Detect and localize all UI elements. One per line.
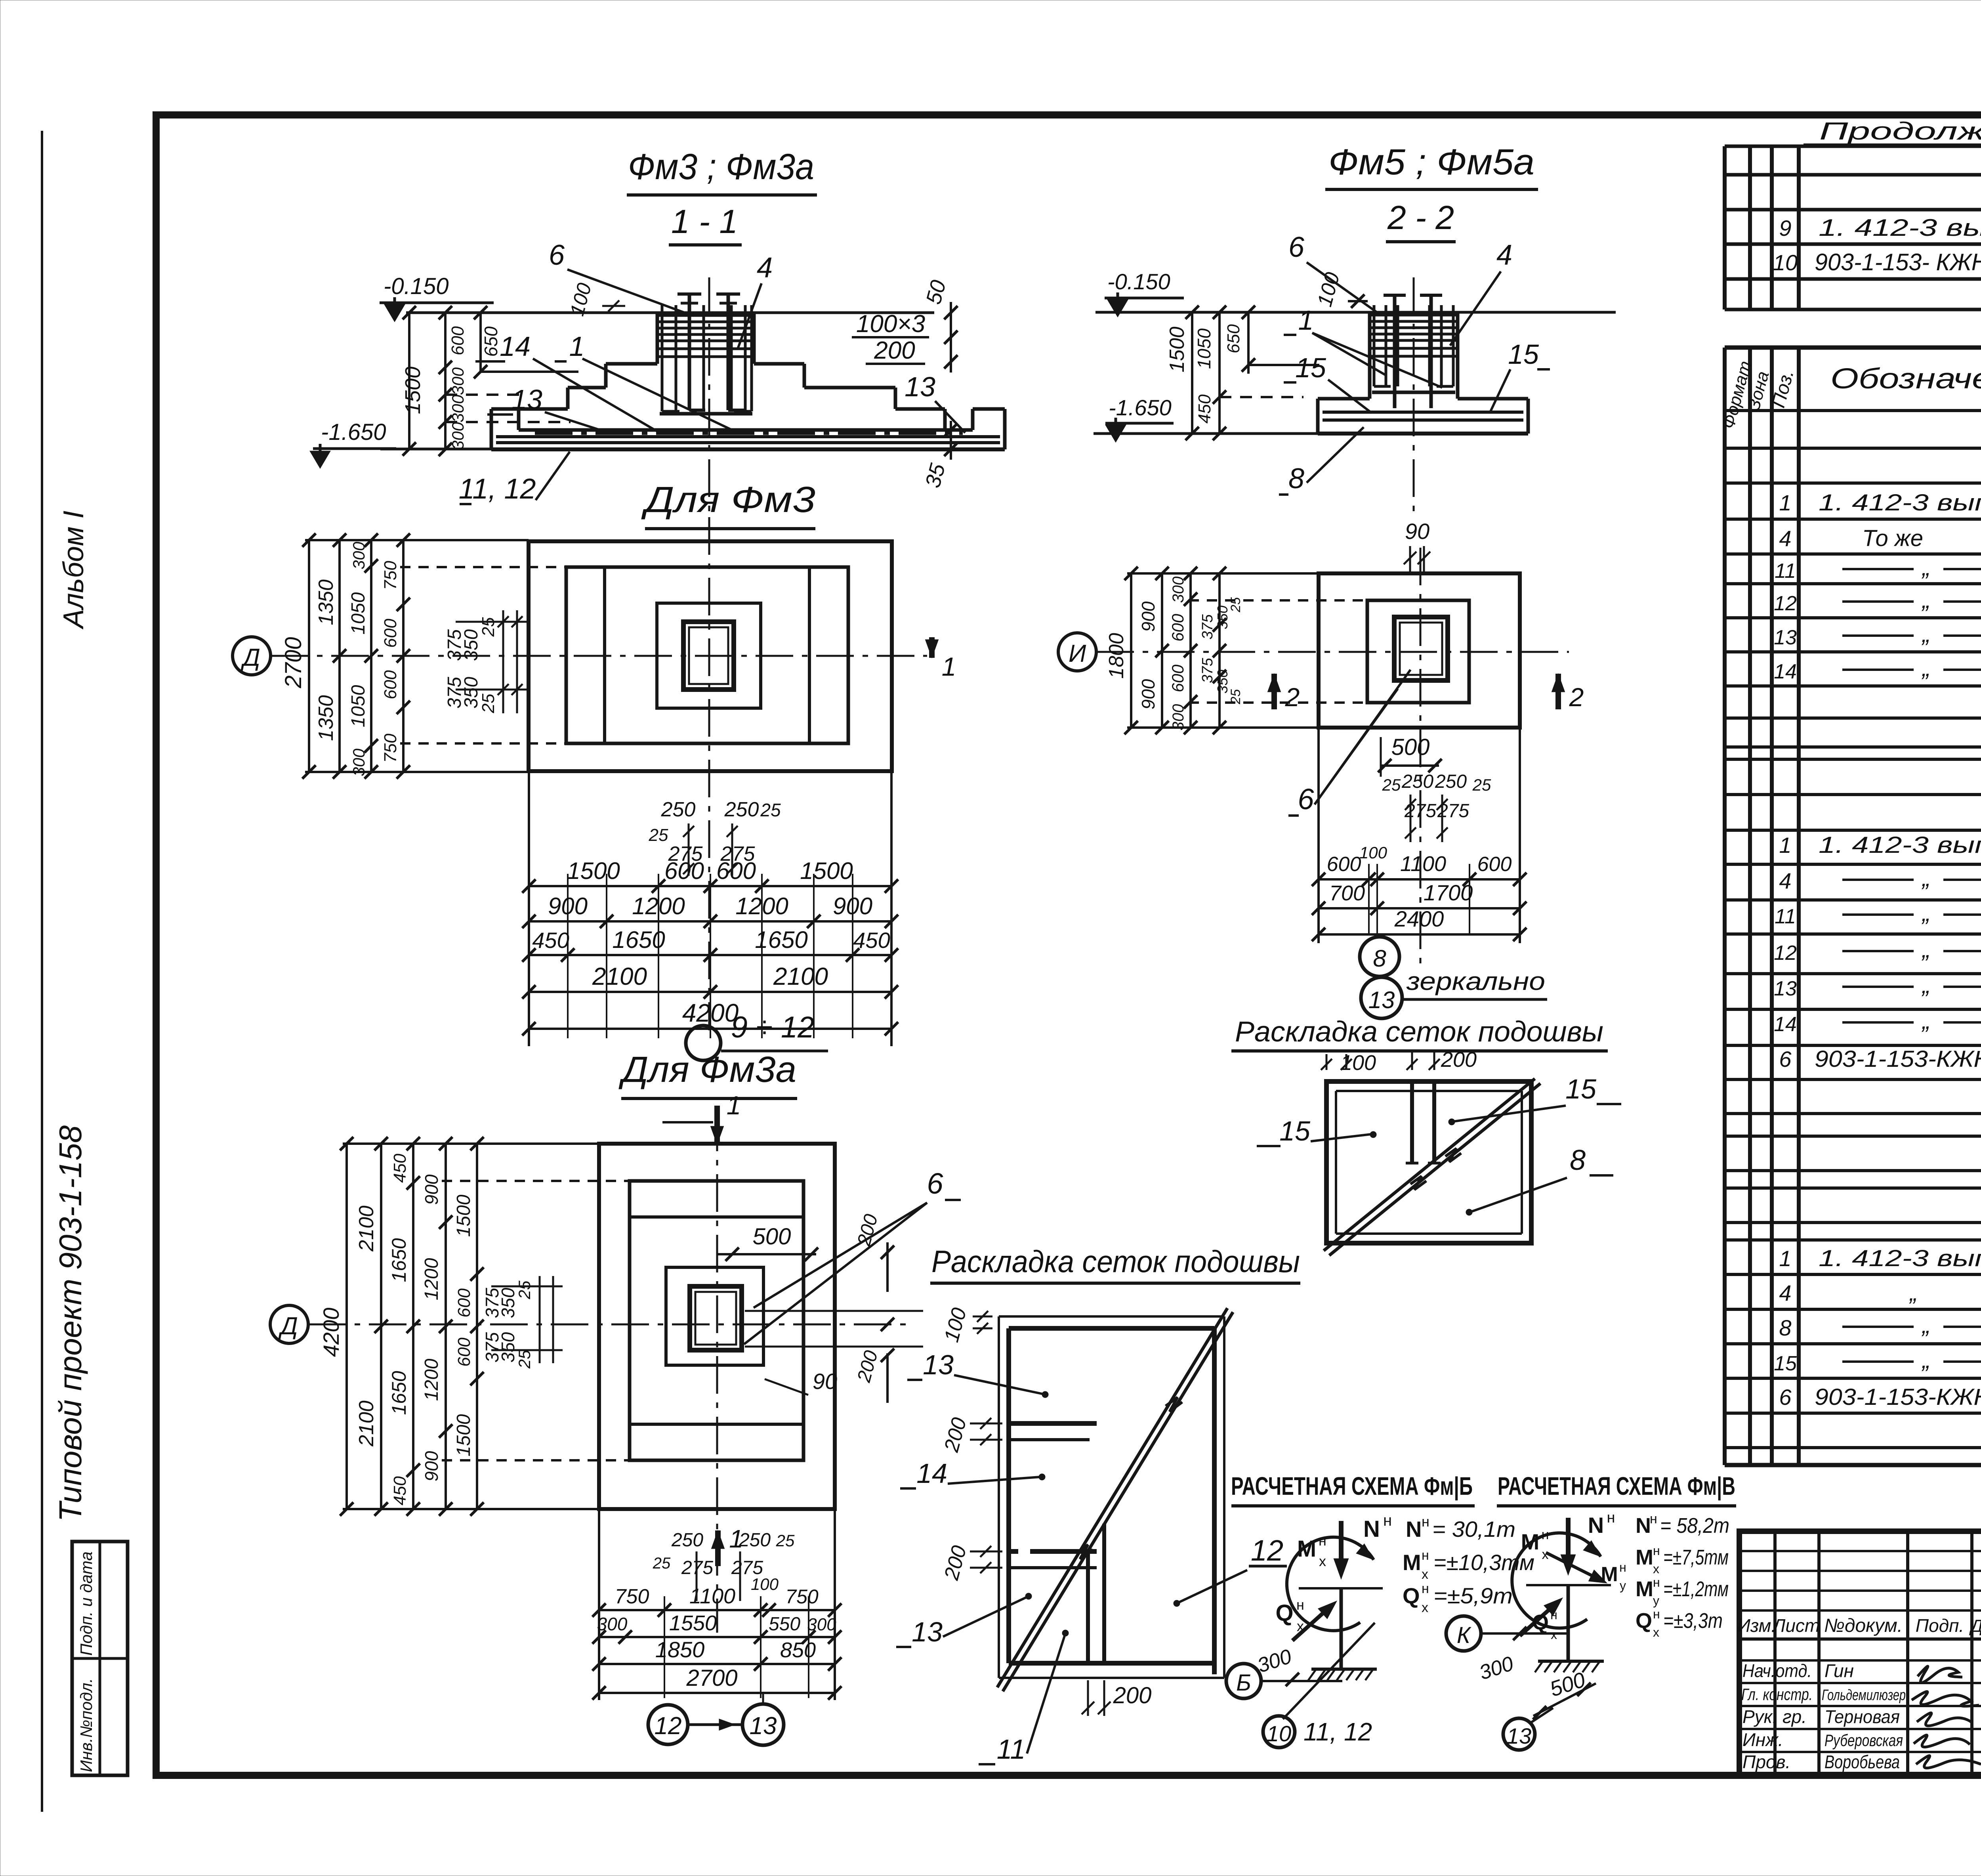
svg-text:12: 12: [1251, 1534, 1283, 1567]
svg-text:„: „: [1921, 936, 1930, 963]
svg-text:РАСЧЕТНАЯ СХЕМА Фм|В: РАСЧЕТНАЯ СХЕМА Фм|В: [1498, 1472, 1735, 1501]
svg-text:450: 450: [390, 1154, 410, 1183]
svg-text:2100: 2100: [355, 1400, 378, 1447]
base slab: [519, 428, 973, 432]
column vertical rebars: [661, 305, 664, 411]
svg-text:8: 8: [1373, 945, 1386, 972]
svg-text:11: 11: [997, 1734, 1026, 1765]
svg-text:н: н: [1422, 1548, 1429, 1563]
svg-text:н: н: [1383, 1512, 1392, 1529]
svg-text:275: 275: [668, 842, 703, 865]
svg-text:12: 12: [655, 1712, 682, 1740]
svg-text:450: 450: [390, 1476, 410, 1505]
svg-text:900: 900: [421, 1174, 442, 1205]
svg-text:900: 900: [1138, 679, 1158, 709]
svg-text:25: 25: [1472, 776, 1491, 794]
svg-text:650: 650: [481, 326, 501, 357]
section mark 1 bottom: [715, 1530, 721, 1566]
bottom bar 2-2: [1372, 391, 1455, 394]
plan Fm5 bottom dim rows: [1319, 878, 1520, 881]
svg-text:8: 8: [1570, 1144, 1586, 1176]
svg-text:25: 25: [649, 825, 668, 845]
plan Fm3 column section: [683, 622, 734, 690]
svg-text:-0.150: -0.150: [1107, 269, 1170, 294]
svg-text:300: 300: [448, 394, 467, 422]
plan Fm5 horizontal axis: [1096, 651, 1569, 653]
svg-text:15: 15: [1295, 352, 1326, 383]
svg-text:Альбом I: Альбом I: [58, 511, 90, 630]
svg-text:=±1,2тм: =±1,2тм: [1663, 1577, 1729, 1601]
svg-text:1: 1: [1779, 1246, 1791, 1271]
svg-text:1200: 1200: [735, 893, 788, 919]
plan Fm3a horizontal axis: [308, 1324, 911, 1326]
svg-text:500: 500: [753, 1224, 791, 1249]
svg-text:= 58,2т: = 58,2т: [1660, 1514, 1729, 1538]
svg-text:8: 8: [1288, 463, 1304, 495]
svg-text:600: 600: [381, 670, 400, 699]
bottom datum line 2-2: [1094, 432, 1318, 435]
svg-text:12: 12: [1774, 592, 1797, 615]
plan Fm3 bottom dim verticals: [528, 772, 530, 1046]
svg-text:Пров.: Пров.: [1742, 1752, 1790, 1772]
scheme V Mx arc: [1512, 1533, 1601, 1628]
svg-text:То же: То же: [1862, 525, 1923, 551]
left margin bottom box: [72, 1542, 128, 1775]
svg-text:Обозначение: Обозначение: [1830, 363, 1981, 395]
svg-text:10: 10: [1267, 1721, 1291, 1746]
svg-text:90: 90: [1405, 519, 1429, 544]
svg-text:200: 200: [1113, 1683, 1152, 1708]
anchor bolts with tops: [688, 294, 691, 410]
svg-text:13: 13: [1774, 977, 1797, 1000]
svg-text:275: 275: [731, 1557, 763, 1578]
svg-text:600: 600: [448, 326, 468, 355]
svg-text:M: M: [1403, 1550, 1421, 1575]
svg-text:750: 750: [615, 1585, 649, 1608]
svg-text:н: н: [1422, 1581, 1429, 1596]
bottom datum line: [380, 448, 533, 451]
section mark 1 right: [929, 637, 935, 658]
mesh layout diagonal: [1324, 1079, 1535, 1251]
detail circle 9-12: [686, 1026, 721, 1060]
svg-text:1: 1: [569, 331, 585, 362]
svg-text:M: M: [1601, 1563, 1618, 1586]
svg-text:903-1-153-КЖН-МН2: 903-1-153-КЖН-МН2: [1815, 1384, 1981, 1410]
svg-text:2400: 2400: [1394, 906, 1444, 931]
svg-text:н: н: [1653, 1544, 1660, 1558]
svg-text:Воробьева: Воробьева: [1825, 1752, 1900, 1772]
svg-text:250: 250: [661, 798, 696, 821]
mesh sheet divider bars: [1410, 1081, 1414, 1163]
svg-text:600: 600: [1168, 613, 1187, 642]
big mesh inner thick frame: [1009, 1326, 1214, 1331]
svg-text:4200: 4200: [682, 999, 739, 1027]
scheme V My arrow diagonal: [1546, 1553, 1601, 1580]
plan Fm3a bottom dim rows: [599, 1609, 835, 1611]
main table grid: [1723, 348, 1727, 1465]
column vertical axis line: [708, 277, 710, 551]
svg-text:„: „: [1921, 1347, 1930, 1373]
svg-text:250: 250: [739, 1530, 771, 1551]
svg-text:1650: 1650: [612, 927, 665, 953]
svg-text:13: 13: [1774, 626, 1797, 649]
plan Fm3a second rectangle: [630, 1181, 803, 1460]
svg-text:Дата: Дата: [1969, 1616, 1981, 1636]
svg-text:450: 450: [853, 928, 890, 953]
svg-text:Типовой проект 903-1-158: Типовой проект 903-1-158: [53, 1125, 88, 1522]
scheme B top cross line: [1299, 1587, 1383, 1589]
svg-text:Подп. и дата: Подп. и дата: [77, 1551, 95, 1656]
svg-text:Для Фм3а: Для Фм3а: [618, 1049, 796, 1090]
svg-text:x: x: [1297, 1618, 1304, 1634]
svg-text:300: 300: [349, 541, 368, 569]
svg-text:25: 25: [1228, 689, 1243, 705]
svg-text:К: К: [1457, 1622, 1471, 1648]
svg-text:300: 300: [807, 1615, 836, 1634]
svg-text:N: N: [1636, 1514, 1651, 1538]
svg-text:275: 275: [720, 842, 756, 865]
svg-text:850: 850: [780, 1638, 816, 1662]
svg-text:4: 4: [757, 252, 773, 284]
svg-text:25: 25: [515, 1280, 534, 1299]
svg-text:РАСЧЕТНАЯ СХЕМА Фм|Б: РАСЧЕТНАЯ СХЕМА Фм|Б: [1231, 1472, 1473, 1501]
svg-text:300: 300: [597, 1614, 628, 1634]
svg-text:25: 25: [776, 1531, 795, 1550]
svg-text:13: 13: [905, 371, 935, 402]
plan Fm3 second rectangle: [566, 567, 848, 743]
svg-text:25: 25: [515, 1350, 534, 1369]
svg-text:„: „: [1908, 1280, 1917, 1306]
svg-text:250: 250: [1401, 771, 1433, 792]
svg-text:25: 25: [653, 1555, 671, 1572]
svg-text:Раскладка сеток подошвы: Раскладка сеток подошвы: [931, 1244, 1300, 1279]
plan Fm3a third rectangle: [666, 1267, 763, 1365]
svg-text:н: н: [1619, 1560, 1626, 1574]
svg-text:6: 6: [1779, 1385, 1792, 1410]
svg-text:Инв.№подл.: Инв.№подл.: [77, 1678, 95, 1772]
svg-text:450: 450: [1195, 394, 1214, 424]
svg-text:=±5,9т: =±5,9т: [1433, 1583, 1513, 1608]
svg-text:Фм3 ; Фм3а: Фм3 ; Фм3а: [628, 147, 814, 187]
svg-text:1650: 1650: [755, 927, 807, 953]
svg-text:1200: 1200: [421, 1358, 442, 1401]
detail circles 12 13 bottom: [648, 1705, 688, 1744]
svg-text:14: 14: [500, 331, 531, 362]
svg-text:x: x: [1422, 1567, 1428, 1582]
svg-text:1500: 1500: [800, 858, 853, 884]
svg-text:15: 15: [1508, 339, 1539, 370]
stirrups 2-2: [1370, 314, 1458, 317]
plan Fm5 outer rectangle: [1319, 573, 1520, 728]
svg-text:Раскладка сеток подошвы: Раскладка сеток подошвы: [1235, 1016, 1603, 1048]
svg-text:Д: Д: [240, 644, 260, 671]
svg-text:300: 300: [349, 748, 368, 776]
scheme V N force arrow: [1566, 1518, 1571, 1568]
svg-text:N: N: [1588, 1513, 1604, 1538]
svg-text:н: н: [1653, 1607, 1660, 1621]
signatures: [1918, 1666, 1962, 1683]
svg-text:1650: 1650: [388, 1371, 410, 1415]
scheme B axis to grid B: [1262, 1680, 1342, 1682]
svg-text:1200: 1200: [632, 893, 685, 919]
svg-text:Терновая: Терновая: [1825, 1706, 1900, 1727]
svg-text:250: 250: [1435, 771, 1467, 792]
svg-text:Нач.отд.: Нач.отд.: [1742, 1660, 1812, 1681]
svg-text:600: 600: [381, 619, 400, 648]
svg-text:600: 600: [454, 1337, 474, 1367]
svg-text:Q: Q: [1403, 1583, 1420, 1608]
scheme V dim 500: [1533, 1683, 1596, 1716]
svg-text:9 ÷ 12: 9 ÷ 12: [731, 1011, 815, 1044]
plan Fm3 left chain ticks: [302, 533, 316, 547]
svg-text:300: 300: [1170, 577, 1187, 603]
svg-text:15: 15: [1565, 1074, 1597, 1104]
svg-text:600: 600: [454, 1288, 474, 1318]
svg-text:500: 500: [1391, 734, 1430, 760]
foundation steps left: [606, 362, 657, 366]
mesh vertical edges: [1086, 1551, 1090, 1663]
scheme V ground line with hatch: [1538, 1660, 1604, 1663]
svg-text:375: 375: [1199, 614, 1216, 639]
svg-text:Гин: Гин: [1825, 1660, 1854, 1681]
scheme B leader 10 11 12: [1283, 1623, 1375, 1719]
svg-text:1200: 1200: [421, 1258, 442, 1300]
plan Fm5 vertical axis: [1420, 548, 1422, 971]
svg-text:1500: 1500: [567, 858, 620, 884]
svg-text:1500: 1500: [1166, 327, 1189, 373]
svg-text:13: 13: [923, 1349, 954, 1380]
svg-text:1350: 1350: [315, 695, 338, 741]
svg-text:200: 200: [874, 337, 915, 364]
slab mesh lines 15: [1323, 411, 1523, 414]
svg-text:200: 200: [1441, 1048, 1477, 1072]
svg-text:x: x: [1653, 1562, 1659, 1576]
big diagonal break marks: [1076, 1545, 1093, 1559]
svg-text:н: н: [1607, 1509, 1615, 1526]
svg-text:6: 6: [927, 1167, 943, 1200]
section marks 2: [1271, 674, 1277, 709]
title block outer box: [1739, 1531, 1981, 1775]
axis circle D: [233, 637, 271, 675]
scheme B ground line with hatch: [1311, 1668, 1377, 1671]
svg-text:y: y: [1653, 1593, 1659, 1608]
foundation column outline: [656, 313, 659, 364]
svg-text:н: н: [1422, 1513, 1429, 1530]
svg-text:„: „: [1921, 655, 1930, 681]
svg-text:11, 12: 11, 12: [459, 473, 536, 505]
axis circle D second: [270, 1305, 308, 1343]
svg-text:1: 1: [942, 652, 956, 681]
svg-text:13: 13: [1368, 987, 1395, 1013]
svg-text:Гольдемилюзер: Гольдемилюзер: [1822, 1687, 1906, 1704]
column axis line 2-2: [1413, 277, 1415, 511]
svg-text:1700: 1700: [1424, 880, 1473, 905]
svg-text:Рук. гр.: Рук. гр.: [1742, 1706, 1807, 1727]
slab mesh lines 11 12: [496, 435, 1000, 438]
svg-text:1650: 1650: [388, 1238, 410, 1282]
svg-text:Фм5 ; Фм5а: Фм5 ; Фм5а: [1328, 142, 1534, 182]
anchor bolts 2-2: [1393, 295, 1397, 408]
svg-text:13: 13: [1507, 1723, 1531, 1748]
svg-text:90: 90: [813, 1369, 837, 1394]
svg-text:„: „: [1921, 865, 1930, 891]
title block left table verticals: [1773, 1531, 1777, 1775]
plan Fm3a outer rectangle: [599, 1144, 835, 1509]
svg-text:1: 1: [727, 1091, 741, 1120]
svg-text:750: 750: [381, 561, 400, 590]
svg-text:Продолжение: Продолжение: [1819, 118, 1981, 145]
svg-text:1. 412-3 вып. II: 1. 412-3 вып. II: [1819, 490, 1981, 516]
svg-text:1050: 1050: [348, 592, 369, 634]
big mesh outer rectangle: [999, 1315, 1224, 1318]
svg-text:4: 4: [1779, 868, 1791, 893]
svg-text:100×3: 100×3: [856, 310, 925, 338]
svg-text:„: „: [1921, 900, 1930, 926]
mesh layout Fm5 rectangle: [1326, 1081, 1531, 1243]
plan Fm3a column section: [690, 1286, 742, 1350]
svg-text:1: 1: [1298, 305, 1314, 336]
detail circles 8 and 13 mirror note: [1360, 937, 1399, 976]
plan Fm3 step vertical lines: [603, 567, 606, 743]
svg-text:Подп.: Подп.: [1916, 1615, 1964, 1636]
svg-text:„: „: [1921, 1007, 1930, 1034]
section mark 1 top: [662, 1121, 713, 1123]
svg-text:=±3,3т: =±3,3т: [1663, 1609, 1723, 1633]
left dimension chain lines: [408, 313, 410, 449]
svg-text:25: 25: [1228, 597, 1243, 613]
base slab 2-2: [1318, 397, 1370, 401]
svg-text:11, 12: 11, 12: [1303, 1717, 1372, 1746]
svg-text:4200: 4200: [319, 1308, 344, 1357]
svg-text:6: 6: [1298, 783, 1314, 816]
plan Fm5 left dim verticals: [1130, 573, 1132, 728]
plan Fm3a chain ticks: [340, 1137, 353, 1150]
svg-text:-1.650: -1.650: [1109, 395, 1172, 420]
svg-text:N: N: [1363, 1516, 1380, 1542]
svg-text:6: 6: [1779, 1047, 1792, 1072]
plan Fm3 horizontal axis: [271, 655, 927, 657]
svg-text:N: N: [1406, 1517, 1422, 1542]
right dim block 50 100x3 200 35: [950, 302, 952, 373]
svg-text:1800: 1800: [1105, 633, 1128, 679]
svg-text:13: 13: [511, 384, 542, 415]
svg-text:12: 12: [1774, 942, 1797, 965]
big diagonal: [997, 1308, 1227, 1687]
svg-text:25: 25: [1382, 776, 1401, 794]
scheme B N force arrow: [1339, 1521, 1344, 1572]
svg-text:2: 2: [1285, 682, 1300, 712]
svg-text:14: 14: [1774, 660, 1797, 683]
floor level line section 2-2: [1095, 311, 1616, 314]
svg-text:= 30,1т: = 30,1т: [1432, 1517, 1515, 1542]
svg-text:y: y: [1620, 1578, 1626, 1593]
scheme V column line: [1567, 1585, 1570, 1661]
svg-text:Q: Q: [1636, 1609, 1652, 1633]
svg-text:Изм.: Изм.: [1737, 1615, 1776, 1636]
svg-text:750: 750: [381, 734, 400, 763]
top table grid: [1725, 145, 1981, 148]
svg-text:250: 250: [724, 798, 759, 821]
svg-text:900: 900: [548, 893, 588, 919]
paper binding edge line: [41, 131, 43, 1812]
plan Fm5 bottom ticks: [1312, 873, 1325, 886]
svg-text:300: 300: [448, 367, 467, 395]
svg-text:Инж.: Инж.: [1742, 1729, 1783, 1750]
svg-text:450: 450: [532, 928, 569, 953]
foundation steps right: [754, 362, 804, 366]
plan Fm3 bottom dim ticks: [522, 879, 536, 893]
svg-text:300: 300: [448, 422, 467, 450]
svg-text:11: 11: [1775, 905, 1796, 928]
svg-text:14: 14: [1774, 1013, 1797, 1036]
svg-text:Q: Q: [1275, 1600, 1293, 1626]
slab axis dash-dot line: [535, 432, 963, 435]
svg-text:„: „: [1921, 554, 1930, 581]
axis circle I: [1058, 633, 1096, 671]
svg-text:Гл. констр.: Гл. констр.: [1741, 1685, 1813, 1704]
plan Fm3 left dim extension lines: [305, 539, 529, 541]
scheme V leader 13: [1530, 1708, 1553, 1723]
svg-text:M: M: [1636, 1546, 1653, 1569]
svg-text:2: 2: [1569, 682, 1584, 712]
svg-text:н: н: [1550, 1608, 1557, 1622]
plan Fm3 bottom dim rows: [529, 885, 891, 887]
svg-text:Руберовская: Руберовская: [1825, 1731, 1903, 1750]
column stirrup lines: [657, 314, 754, 317]
plan Fm3 vertical axis: [708, 517, 710, 1030]
svg-text:4: 4: [1779, 526, 1791, 551]
svg-text:4: 4: [1779, 1280, 1791, 1305]
svg-text:„: „: [1921, 621, 1930, 647]
svg-text:Б: Б: [1236, 1670, 1251, 1696]
svg-text:13: 13: [912, 1616, 943, 1647]
svg-text:900: 900: [421, 1451, 442, 1481]
svg-text:14: 14: [916, 1458, 947, 1489]
title block left table rows: [1739, 1550, 1981, 1552]
svg-text:2100: 2100: [592, 963, 647, 990]
svg-text:=±7,5тм: =±7,5тм: [1663, 1546, 1729, 1569]
svg-text:600: 600: [1168, 664, 1187, 692]
svg-text:1500: 1500: [453, 1414, 474, 1456]
svg-text:„: „: [1921, 1312, 1930, 1338]
svg-text:1. 412-3 вып. II: 1. 412-3 вып. II: [1819, 214, 1981, 241]
rebars 2-2: [1373, 305, 1376, 386]
svg-text:1050: 1050: [348, 685, 369, 727]
plan Fm3a left dim verticals: [345, 1144, 348, 1509]
svg-text:н: н: [1653, 1575, 1660, 1589]
svg-text:1. 412-3 вып. II: 1. 412-3 вып. II: [1819, 832, 1981, 858]
plan Fm5 chain ticks: [1124, 567, 1138, 580]
svg-text:„: „: [1921, 972, 1930, 998]
svg-text:1 - 1: 1 - 1: [671, 203, 738, 240]
scheme B Mx moment arc: [1287, 1537, 1374, 1631]
svg-text:1550: 1550: [669, 1611, 717, 1635]
svg-text:11: 11: [1775, 560, 1796, 583]
scheme V axis to grid K: [1481, 1632, 1570, 1635]
plan Fm3a ext lines: [343, 1142, 599, 1145]
svg-text:600: 600: [1327, 853, 1361, 876]
svg-text:И: И: [1069, 640, 1086, 667]
svg-text:600: 600: [1477, 853, 1512, 876]
svg-text:25: 25: [479, 693, 498, 713]
svg-text:9: 9: [1779, 216, 1791, 241]
svg-text:M: M: [1297, 1536, 1316, 1562]
svg-text:1350: 1350: [315, 579, 338, 625]
plan Fm3 left dim chain verticals: [308, 540, 310, 772]
svg-text:13: 13: [750, 1712, 777, 1740]
svg-text:25: 25: [760, 800, 781, 820]
column outline 2-2: [1368, 312, 1372, 399]
